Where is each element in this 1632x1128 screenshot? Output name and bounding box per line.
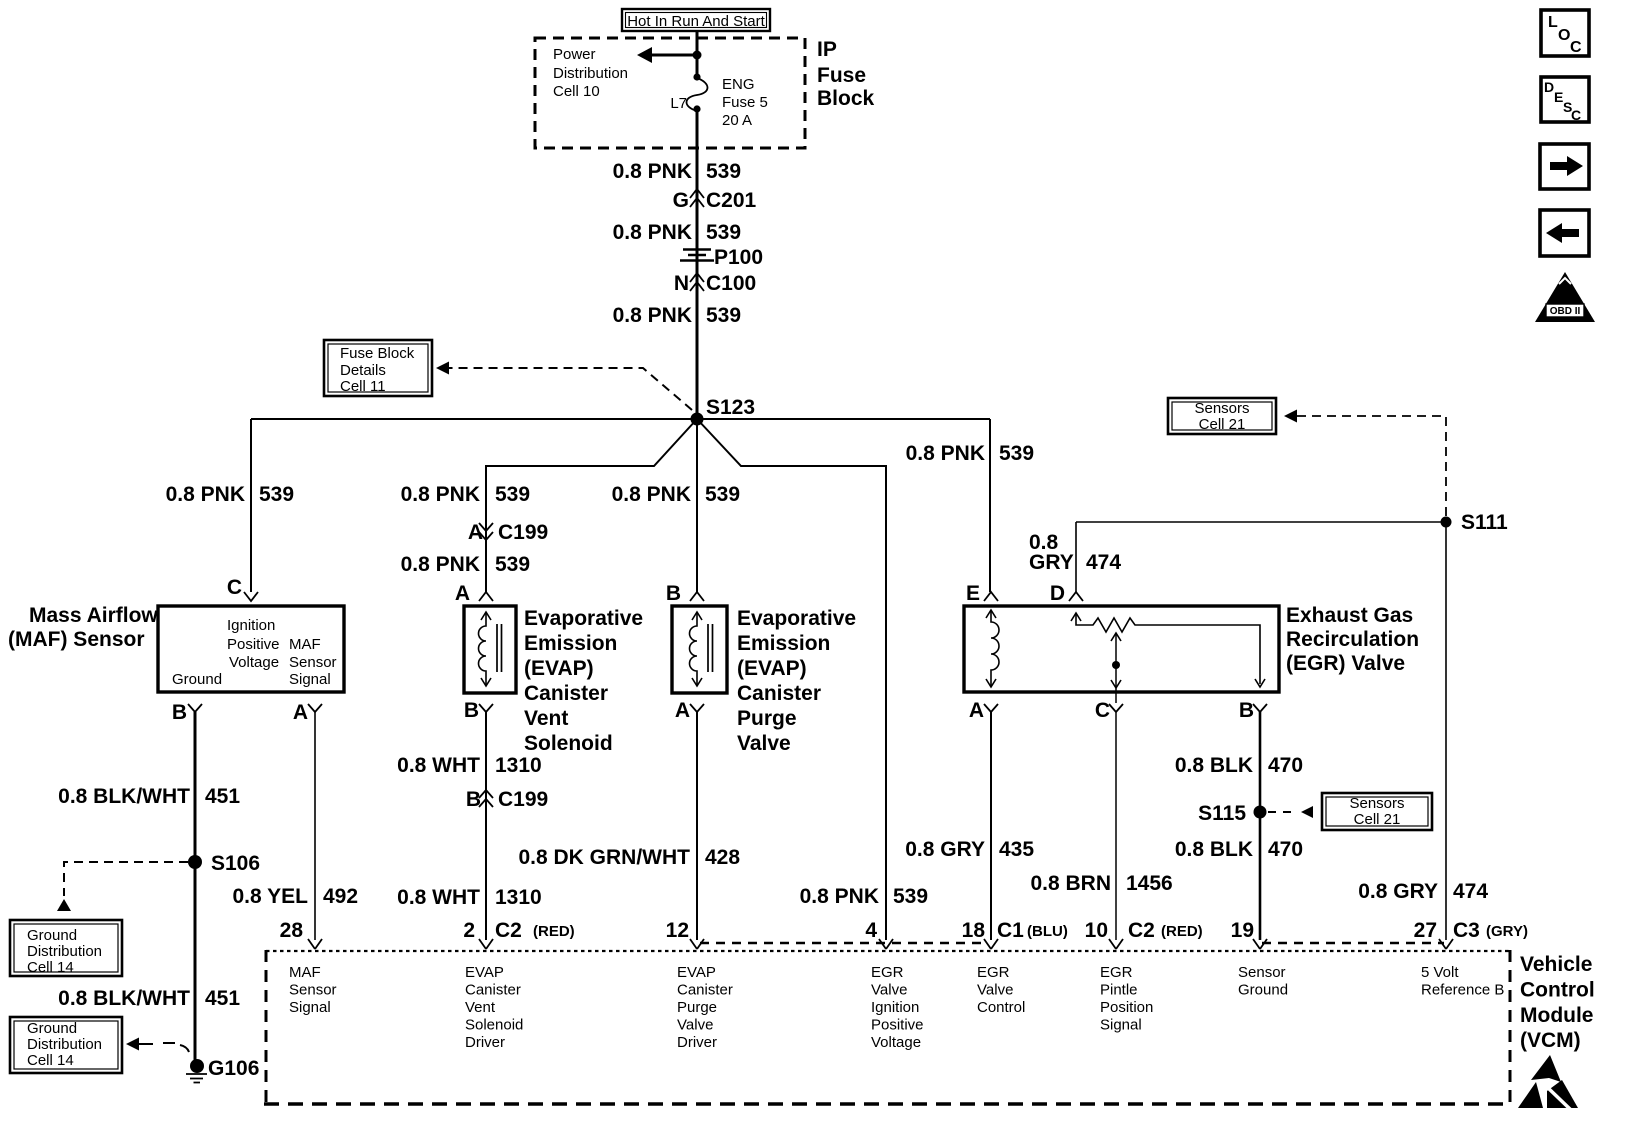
ground G106	[186, 1057, 259, 1083]
svg-text:Fuse 5: Fuse 5	[722, 94, 768, 111]
VCM dashed box top border (fine)	[266, 950, 1510, 952]
icon back arrow box	[1540, 210, 1589, 256]
svg-text:Distribution: Distribution	[27, 1036, 102, 1053]
svg-text:0.8 PNK: 0.8 PNK	[612, 483, 691, 506]
pin 28 of VCM	[280, 919, 322, 949]
pin E of EGR	[966, 582, 998, 605]
svg-text:C199: C199	[498, 521, 548, 544]
svg-text:492: 492	[323, 885, 358, 908]
svg-text:Positive: Positive	[871, 1017, 924, 1034]
wire EGR D up to S111	[1075, 522, 1077, 592]
svg-text:0.8 PNK: 0.8 PNK	[613, 160, 692, 183]
connector C201 pin G	[673, 189, 757, 212]
svg-text:539: 539	[999, 442, 1034, 465]
wire dashed reference S115 to Sensors Cell 21	[1268, 806, 1313, 818]
label Evaporative Emission (EVAP) Canister Purge Valve	[737, 607, 856, 755]
label 0.8 GRY 474 (D wire)	[1029, 531, 1121, 574]
svg-text:539: 539	[259, 483, 294, 506]
svg-text:(RED): (RED)	[533, 923, 575, 940]
svg-text:451: 451	[205, 785, 240, 808]
svg-text:C2: C2	[1128, 919, 1155, 942]
svg-text:C3: C3	[1453, 919, 1480, 942]
pin 4 of VCM	[865, 919, 893, 949]
svg-text:0.8 PNK: 0.8 PNK	[613, 304, 692, 327]
svg-text:Ground: Ground	[172, 671, 222, 688]
label ENG Fuse 5 20 A	[722, 76, 768, 129]
svg-text:OBD II: OBD II	[1550, 306, 1581, 317]
svg-text:Ignition: Ignition	[227, 617, 275, 634]
wire S111 horizontal	[1076, 521, 1446, 523]
svg-text:S115: S115	[1198, 802, 1246, 825]
svg-text:(MAF) Sensor: (MAF) Sensor	[8, 628, 145, 651]
svg-text:EGR: EGR	[871, 964, 904, 981]
label 0.8 BLK/WHT 451 (lower)	[58, 987, 240, 1010]
svg-text:1310: 1310	[495, 886, 542, 909]
svg-text:A: A	[969, 699, 984, 722]
svg-text:1310: 1310	[495, 754, 542, 777]
MAF sensor box	[158, 606, 344, 692]
label Vehicle Control Module (VCM)	[1520, 953, 1595, 1052]
svg-text:Fuse Block: Fuse Block	[340, 345, 415, 362]
node Ground Distribution Cell 14 (upper)	[10, 920, 122, 976]
svg-text:Block: Block	[817, 87, 875, 110]
svg-text:A: A	[293, 701, 308, 724]
svg-text:G106: G106	[208, 1057, 259, 1080]
svg-text:0.8 WHT: 0.8 WHT	[397, 886, 480, 909]
svg-text:C201: C201	[706, 189, 757, 212]
wire hot box to fuse block	[696, 31, 699, 56]
pin B of EGR	[1239, 699, 1267, 722]
label 0.8 BLK 470 (upper)	[1175, 754, 1303, 777]
svg-text:539: 539	[705, 483, 740, 506]
svg-text:B: B	[172, 701, 187, 724]
wire S111 down to VCM pin 27	[1445, 522, 1447, 940]
wire EGR B to VCM pin 19	[1259, 712, 1262, 940]
EVAP canister vent solenoid box	[464, 606, 516, 693]
svg-text:C100: C100	[706, 272, 756, 295]
svg-text:0.8 BRN: 0.8 BRN	[1030, 872, 1111, 895]
svg-text:MAF: MAF	[289, 636, 321, 653]
svg-text:E: E	[1554, 89, 1563, 105]
svg-text:C2: C2	[495, 919, 522, 942]
svg-text:Valve: Valve	[677, 1017, 713, 1034]
svg-text:12: 12	[666, 919, 689, 942]
svg-text:0.8 GRY: 0.8 GRY	[905, 838, 985, 861]
wire S123 down to EVAP purge valve	[696, 419, 698, 592]
label Mass Airflow (MAF) Sensor	[8, 604, 158, 651]
svg-text:0.8 PNK: 0.8 PNK	[166, 483, 245, 506]
svg-text:C: C	[1570, 39, 1582, 56]
label 0.8 PNK 539 (EGR ignition feed)	[800, 885, 928, 908]
icon OBD II triangle	[1535, 272, 1595, 322]
pin 18 of VCM	[962, 919, 998, 949]
wire dashed reference G106 to Ground Distribution	[126, 1038, 189, 1053]
svg-text:(GRY): (GRY)	[1486, 923, 1528, 940]
label connector C3 (GRY) pin 27	[1453, 919, 1528, 942]
pin A of vent solenoid	[455, 582, 493, 605]
pin C of EGR	[1095, 699, 1123, 722]
svg-text:Canister: Canister	[524, 682, 608, 705]
svg-text:L7: L7	[670, 95, 687, 112]
svg-text:539: 539	[495, 553, 530, 576]
label VCM input: EGR Valve Control	[977, 964, 1025, 1016]
svg-text:Reference B: Reference B	[1421, 982, 1504, 999]
svg-text:EGR: EGR	[1100, 964, 1133, 981]
svg-text:Module: Module	[1520, 1004, 1594, 1027]
svg-text:Vehicle: Vehicle	[1520, 953, 1592, 976]
svg-text:0.8 WHT: 0.8 WHT	[397, 754, 480, 777]
svg-text:ENG: ENG	[722, 76, 755, 93]
svg-text:MAF: MAF	[289, 964, 321, 981]
svg-text:Sensor: Sensor	[289, 654, 337, 671]
label 0.8 DK GRN/WHT 428	[518, 846, 740, 869]
node S111 splice	[1441, 511, 1509, 534]
svg-text:19: 19	[1231, 919, 1254, 942]
pin 10 of VCM	[1085, 919, 1123, 949]
wire right end down to EGR E	[989, 419, 991, 592]
node Ground Distribution Cell 14 (lower)	[10, 1017, 122, 1073]
label connector C2 (RED) pin 10	[1128, 919, 1203, 942]
ESD sensitivity symbol	[1518, 1055, 1578, 1110]
svg-text:Valve: Valve	[737, 732, 791, 755]
svg-text:0.8 YEL: 0.8 YEL	[233, 885, 309, 908]
pin 19 of VCM	[1231, 919, 1267, 949]
svg-text:L: L	[1548, 14, 1558, 31]
label 0.8 BLK 470 (lower)	[1175, 838, 1303, 861]
label VCM input: EGR Pintle Position Signal	[1100, 964, 1153, 1034]
wire main horizontal from S123	[251, 418, 990, 420]
label VCM input: 5 Volt Reference B	[1421, 964, 1504, 999]
svg-text:0.8 BLK/WHT: 0.8 BLK/WHT	[58, 785, 190, 808]
svg-text:Details: Details	[340, 362, 386, 379]
label 0.8 GRY 435	[905, 838, 1034, 861]
connector C100 pin N	[674, 272, 756, 295]
svg-text:Hot In Run And Start: Hot In Run And Start	[627, 13, 765, 30]
svg-text:(BLU): (BLU)	[1027, 923, 1068, 940]
svg-text:E: E	[966, 582, 980, 605]
pin A of EGR	[969, 699, 998, 722]
svg-text:Fuse: Fuse	[817, 64, 866, 87]
connector C199 pin A	[468, 521, 548, 544]
svg-text:S111: S111	[1461, 511, 1508, 534]
label IP Fuse Block	[817, 38, 875, 110]
svg-text:470: 470	[1268, 754, 1303, 777]
svg-text:Cell 21: Cell 21	[1354, 811, 1401, 828]
label connector C2 (RED) pin 2	[495, 919, 575, 942]
svg-text:Cell 10: Cell 10	[553, 83, 600, 100]
svg-text:(EVAP): (EVAP)	[737, 657, 807, 680]
label 0.8 PNK 539 (MAF branch)	[166, 483, 294, 506]
VCM dashed box right border	[1509, 950, 1512, 1104]
IP Fuse Block dashed box	[535, 38, 805, 148]
pin 12 of VCM	[666, 919, 704, 949]
EGR pintle position potentiometer	[1071, 613, 1265, 687]
svg-text:Exhaust Gas: Exhaust Gas	[1286, 604, 1413, 627]
svg-text:EGR: EGR	[977, 964, 1010, 981]
svg-text:539: 539	[495, 483, 530, 506]
label VCM input: Sensor Ground	[1238, 964, 1288, 999]
svg-text:EVAP: EVAP	[677, 964, 716, 981]
svg-text:(VCM): (VCM)	[1520, 1029, 1581, 1052]
label VCM input: EGR Valve Ignition Positive Voltage	[871, 964, 924, 1051]
svg-text:D: D	[1050, 582, 1065, 605]
wire junction to fuse	[696, 55, 699, 78]
svg-text:GRY: GRY	[1029, 551, 1074, 574]
svg-text:Sensor: Sensor	[289, 982, 337, 999]
svg-text:A: A	[468, 521, 483, 544]
svg-text:Emission: Emission	[737, 632, 830, 655]
svg-text:Purge: Purge	[737, 707, 797, 730]
svg-text:C: C	[1095, 699, 1110, 722]
svg-text:II: II	[1558, 287, 1572, 306]
node Fuse Block Details Cell 11	[324, 340, 432, 396]
label Evaporative Emission (EVAP) Canister Vent Solenoid	[524, 607, 643, 755]
pin A of MAF	[293, 701, 322, 724]
svg-text:Driver: Driver	[677, 1034, 717, 1051]
svg-text:428: 428	[705, 846, 740, 869]
label Ignition Positive Voltage	[227, 617, 280, 671]
svg-text:(EGR) Valve: (EGR) Valve	[1286, 652, 1405, 675]
svg-text:Recirculation: Recirculation	[1286, 628, 1419, 651]
svg-text:Distribution: Distribution	[553, 65, 628, 82]
label 0.8 BRN 1456	[1030, 872, 1172, 895]
svg-text:Canister: Canister	[465, 982, 521, 999]
svg-text:IP: IP	[817, 38, 837, 61]
pin 27 of VCM	[1414, 919, 1453, 949]
label 0.8 PNK 539 (EGR branch)	[906, 442, 1034, 465]
svg-text:Valve: Valve	[977, 982, 1013, 999]
svg-text:(RED): (RED)	[1161, 923, 1203, 940]
svg-text:0.8 DK GRN/WHT: 0.8 DK GRN/WHT	[518, 846, 690, 869]
wire fuse to S123	[696, 109, 699, 419]
EGR solenoid coil	[986, 610, 999, 687]
solenoid coil (purge)	[690, 612, 713, 686]
svg-text:S106: S106	[211, 852, 260, 875]
svg-text:Driver: Driver	[465, 1034, 505, 1051]
pin D of EGR	[1050, 582, 1083, 605]
svg-text:Cell 21: Cell 21	[1199, 416, 1246, 433]
svg-text:0.8 PNK: 0.8 PNK	[613, 221, 692, 244]
svg-text:Canister: Canister	[677, 982, 733, 999]
node Sensors Cell 21 (S111)	[1168, 398, 1276, 434]
wire dashed reference to Fuse Block Details	[436, 362, 692, 411]
svg-text:2: 2	[463, 919, 475, 942]
node Sensors Cell 21 (S115)	[1322, 793, 1432, 830]
svg-text:Ignition: Ignition	[871, 999, 919, 1016]
VCM dashed box bottom border	[264, 1102, 1512, 1105]
svg-text:Signal: Signal	[289, 671, 331, 688]
grommet P100	[680, 246, 763, 269]
svg-text:S123: S123	[706, 396, 755, 419]
node S115 splice	[1198, 802, 1266, 825]
wire S123 branch right diagonal	[697, 419, 886, 940]
wire EGR A to VCM pin 18	[990, 712, 992, 940]
svg-text:A: A	[675, 699, 690, 722]
icon LOC box	[1541, 10, 1589, 56]
svg-text:539: 539	[706, 221, 741, 244]
svg-text:Control: Control	[977, 999, 1025, 1016]
wire EGR C to VCM pin 10	[1115, 712, 1117, 940]
label 0.8 BLK/WHT 451 (upper)	[58, 785, 240, 808]
svg-text:Sensors: Sensors	[1194, 400, 1249, 417]
VCM dashed connector segment (pins 12-18)	[700, 942, 988, 944]
EVAP canister purge valve box	[672, 606, 727, 693]
svg-text:Pintle: Pintle	[1100, 982, 1138, 999]
svg-text:Vent: Vent	[465, 999, 496, 1016]
svg-text:474: 474	[1086, 551, 1121, 574]
wire purge valve A to VCM pin 12	[696, 712, 698, 940]
svg-text:Cell 11: Cell 11	[340, 378, 386, 395]
svg-text:B: B	[466, 788, 481, 811]
wire S123 branch left diagonal	[486, 419, 697, 592]
svg-text:Sensor: Sensor	[1238, 964, 1286, 981]
svg-text:A: A	[455, 582, 470, 605]
svg-text:Voltage: Voltage	[871, 1034, 921, 1051]
label VCM input: EVAP Canister Purge Valve Driver	[677, 964, 733, 1051]
label connector C1 (BLU) pin 18	[997, 919, 1068, 942]
svg-text:Control: Control	[1520, 979, 1595, 1002]
svg-text:Evaporative: Evaporative	[524, 607, 643, 630]
EGR valve box	[964, 606, 1279, 692]
svg-text:Emission: Emission	[524, 632, 617, 655]
label 0.8 WHT 1310 (lower)	[397, 886, 542, 909]
svg-text:539: 539	[706, 160, 741, 183]
pin B of MAF	[172, 701, 202, 724]
svg-text:Signal: Signal	[289, 999, 331, 1016]
label 0.8 PNK 539 (below C199)	[401, 553, 530, 576]
wire left branch down to MAF C	[250, 419, 252, 592]
svg-text:D: D	[1544, 79, 1554, 95]
svg-text:Vent: Vent	[524, 707, 568, 730]
svg-text:(EVAP): (EVAP)	[524, 657, 594, 680]
pin B of vent solenoid	[464, 699, 493, 722]
svg-text:G: G	[673, 189, 689, 212]
svg-text:28: 28	[280, 919, 304, 942]
svg-text:451: 451	[205, 987, 240, 1010]
svg-text:Cell 14: Cell 14	[27, 1052, 74, 1069]
svg-text:0.8 PNK: 0.8 PNK	[800, 885, 879, 908]
label MAF Sensor Signal (inside box)	[289, 636, 337, 688]
svg-text:N: N	[674, 272, 689, 295]
wire vent solenoid B to VCM pin 2	[485, 712, 487, 940]
svg-text:EVAP: EVAP	[465, 964, 504, 981]
svg-text:C: C	[227, 576, 242, 599]
svg-text:435: 435	[999, 838, 1034, 861]
svg-text:P100: P100	[714, 246, 763, 269]
svg-text:Evaporative: Evaporative	[737, 607, 856, 630]
pin A of purge valve	[675, 699, 704, 722]
svg-text:Signal: Signal	[1100, 1017, 1142, 1034]
svg-text:0.8 PNK: 0.8 PNK	[401, 483, 480, 506]
svg-text:Power: Power	[553, 46, 596, 63]
node S106 splice	[188, 852, 260, 875]
svg-text:1456: 1456	[1126, 872, 1173, 895]
node junction dot at fuse top	[693, 51, 702, 60]
svg-text:Sensors: Sensors	[1349, 795, 1404, 812]
wire MAF A to VCM pin 28	[314, 712, 316, 940]
EGR potentiometer wiper	[1111, 633, 1121, 703]
label Exhaust Gas Recirculation (EGR) Valve	[1286, 604, 1419, 675]
VCM dashed box left border	[265, 950, 268, 1104]
svg-text:C199: C199	[498, 788, 548, 811]
pin 2 of VCM	[463, 919, 493, 949]
svg-text:Ground: Ground	[1238, 982, 1288, 999]
svg-text:Positive: Positive	[227, 636, 280, 653]
svg-text:20 A: 20 A	[722, 112, 752, 129]
label 0.8 GRY 474 (S111 drop)	[1358, 880, 1488, 903]
svg-text:539: 539	[706, 304, 741, 327]
svg-text:4: 4	[865, 919, 877, 942]
solenoid coil (vent)	[479, 612, 502, 686]
svg-text:B: B	[464, 699, 479, 722]
svg-text:539: 539	[893, 885, 928, 908]
svg-text:Canister: Canister	[737, 682, 821, 705]
svg-text:Ground: Ground	[27, 1020, 77, 1037]
svg-text:0.8 PNK: 0.8 PNK	[401, 553, 480, 576]
label 0.8 PNK 539 (below C201)	[613, 221, 741, 244]
label VCM input: MAF Sensor Signal	[289, 964, 337, 1016]
fuse ENG Fuse 5 20 A	[687, 73, 708, 112]
label 0.8 WHT 1310 (upper)	[397, 754, 542, 777]
svg-text:470: 470	[1268, 838, 1303, 861]
svg-text:0.8 GRY: 0.8 GRY	[1358, 880, 1438, 903]
node S123 splice	[691, 413, 704, 426]
svg-text:Mass Airflow: Mass Airflow	[29, 604, 158, 627]
pin B of purge valve	[666, 582, 704, 605]
svg-text:Solenoid: Solenoid	[524, 732, 613, 755]
svg-text:B: B	[1239, 699, 1254, 722]
wire MAF B to G106	[194, 712, 197, 1062]
svg-text:Cell 14: Cell 14	[27, 959, 74, 976]
label 0.8 PNK 539 (above S123)	[613, 304, 741, 327]
svg-text:0.8 BLK/WHT: 0.8 BLK/WHT	[58, 987, 190, 1010]
svg-text:10: 10	[1085, 919, 1108, 942]
svg-text:O: O	[1558, 27, 1570, 44]
svg-text:Ground: Ground	[27, 927, 77, 944]
svg-text:5 Volt: 5 Volt	[1421, 964, 1459, 981]
svg-text:Purge: Purge	[677, 999, 717, 1016]
icon forward arrow box	[1540, 144, 1589, 189]
svg-text:0.8 BLK: 0.8 BLK	[1175, 754, 1253, 777]
svg-text:474: 474	[1453, 880, 1488, 903]
wire dashed reference S106 to Ground Distribution	[57, 862, 188, 911]
label 0.8 PNK 539 (vent branch)	[401, 483, 530, 506]
label Power Distribution Cell 10	[553, 46, 628, 100]
svg-text:Solenoid: Solenoid	[465, 1017, 523, 1034]
node Hot In Run And Start	[622, 9, 770, 31]
label 0.8 PNK 539 (fuse output)	[613, 160, 741, 183]
svg-text:B: B	[666, 582, 681, 605]
svg-text:Valve: Valve	[871, 982, 907, 999]
svg-text:C: C	[1571, 107, 1581, 123]
label 0.8 YEL 492	[233, 885, 359, 908]
pin C of MAF	[227, 576, 258, 601]
VCM dashed connector segment (pins 19-27)	[1262, 942, 1444, 944]
svg-text:Position: Position	[1100, 999, 1153, 1016]
svg-text:27: 27	[1414, 919, 1437, 942]
label 0.8 PNK 539 (purge branch)	[612, 483, 740, 506]
svg-text:18: 18	[962, 919, 986, 942]
svg-text:Distribution: Distribution	[27, 943, 102, 960]
svg-text:Voltage: Voltage	[229, 654, 279, 671]
svg-text:0.8 PNK: 0.8 PNK	[906, 442, 985, 465]
wire arrow to power distribution	[637, 47, 697, 63]
icon DESC box	[1541, 77, 1589, 123]
svg-text:0.8 BLK: 0.8 BLK	[1175, 838, 1253, 861]
connector C199 pin B	[466, 788, 548, 811]
wire dashed reference S111 to Sensors Cell 21	[1284, 410, 1446, 517]
svg-text:C1: C1	[997, 919, 1024, 942]
